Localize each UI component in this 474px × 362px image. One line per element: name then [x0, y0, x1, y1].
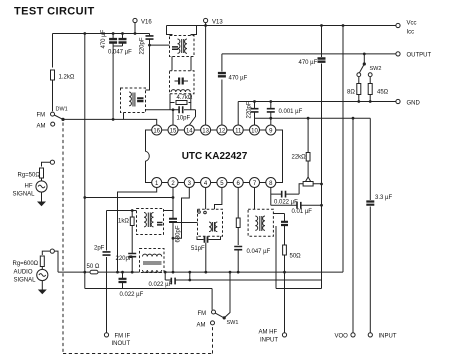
junction rail x84 top [83, 32, 86, 35]
svg-text:0.022 µF: 0.022 µF [149, 282, 173, 288]
wire Vcc/V13 top wire [167, 25, 398, 27]
T5 secondary coil [151, 213, 153, 227]
svg-text:Rg=600Ω: Rg=600Ω [13, 261, 39, 267]
svg-text:INOUT: INOUT [112, 341, 131, 347]
T1 primary coil [178, 39, 180, 53]
svg-text:1.2kΩ: 1.2kΩ [59, 75, 75, 81]
resistor 8 Ohm [347, 77, 361, 102]
ground HF [37, 202, 46, 207]
ground AUDIO [38, 290, 47, 295]
capacitor 220pF lower [116, 254, 137, 274]
wire pin 15 stub [172, 110, 174, 125]
wire AUDIO terminal feed to bus1 [55, 251, 58, 272]
wire [84, 272, 86, 288]
svg-text:12: 12 [219, 128, 226, 134]
svg-text:0.022 µF: 0.022 µF [274, 200, 298, 206]
wire [175, 80, 189, 82]
node junction [188, 279, 191, 282]
svg-text:22kΩ: 22kΩ [292, 155, 307, 161]
wire T4 right side drop [275, 226, 277, 289]
T3 winding marks [198, 211, 201, 214]
capacitor 470uF rail x321 [299, 59, 326, 67]
node junction [269, 100, 272, 103]
terminal GND [396, 99, 421, 106]
capacitor inside T7 [137, 98, 143, 101]
resistor 22kOhm [292, 117, 311, 177]
terminal VOO [335, 333, 356, 340]
wire left rail x52 [52, 34, 54, 68]
node junction [148, 44, 151, 47]
svg-text:220pF: 220pF [140, 37, 146, 54]
resistor 4.7kOhm [170, 94, 193, 105]
capacitor 0.01uF [271, 202, 323, 215]
transformer T3 (AM IF) dashed box [198, 209, 223, 236]
switch SW1 [197, 271, 239, 329]
source AUDIO SIGNAL [14, 267, 48, 290]
capacitor inside T2 [179, 78, 183, 85]
wire rail to FM contact [52, 80, 54, 111]
transformer T4 (AM OSC) dashed box [248, 209, 273, 236]
IC pin 16 [152, 125, 162, 135]
svg-text:INPUT: INPUT [260, 338, 278, 344]
wire pin7 stub into T4 [254, 188, 256, 210]
wire T3 bottom loop [197, 236, 221, 239]
wire bus3 with 0.022uF [164, 272, 166, 280]
IC pin 14 [184, 125, 194, 135]
capacitor 10pF [177, 106, 191, 121]
transformer T2 (FM OSC) dashed box [170, 71, 195, 94]
svg-text:FM: FM [198, 311, 207, 317]
svg-text:Rg=50Ω: Rg=50Ω [18, 173, 41, 179]
IC pin 12 [217, 125, 227, 135]
svg-text:VOO: VOO [335, 334, 349, 340]
svg-text:11: 11 [235, 128, 242, 134]
wire 10pF horizontal [146, 109, 196, 111]
wire pin9 stub [270, 118, 272, 125]
resistor 50 Ohm vertical [283, 245, 302, 333]
svg-text:0.047 µF: 0.047 µF [247, 249, 271, 255]
terminal Vcc/Icc [396, 21, 417, 36]
resistor 45 Ohm [368, 77, 388, 102]
wire OUTPUT from pin12 rail corner [222, 53, 396, 55]
T5 core [148, 213, 150, 228]
capacitor inside T1 [172, 47, 178, 49]
svg-text:15: 15 [170, 128, 177, 134]
node junction [253, 100, 256, 103]
svg-text:220pF: 220pF [116, 256, 133, 262]
wire INPUT rail with 3.3uF [369, 118, 371, 332]
wire T1 top stubs to Vcc wire [167, 26, 197, 36]
node junction [357, 100, 360, 103]
capacitor 470uF pin12 rail [218, 73, 248, 81]
wire V13 stub + pin13 rail [205, 23, 207, 125]
wire B horizontal pin10 to input drop [255, 117, 371, 119]
svg-text:14: 14 [186, 128, 193, 134]
svg-text:2pF: 2pF [94, 246, 105, 252]
IC pin 10 [250, 125, 260, 135]
T3 secondary coil [215, 222, 217, 232]
wire pin5 stub into T3 [215, 188, 222, 210]
svg-text:1kΩ: 1kΩ [118, 219, 129, 225]
IC pin 6 [233, 178, 243, 188]
wire T2 sides to 10pF wire [170, 103, 191, 110]
capacitor 0.047uF top-left [108, 34, 132, 56]
wire pin4 into T3 [205, 188, 207, 210]
svg-text:INPUT: INPUT [379, 334, 397, 340]
node junction [112, 118, 115, 121]
svg-text:FM: FM [37, 113, 46, 119]
node junction [320, 24, 323, 27]
switch DW1 [37, 107, 68, 130]
svg-text:470 µF: 470 µF [229, 76, 248, 82]
IC pin 1 [152, 178, 162, 188]
wire VOO stub [352, 118, 354, 332]
IC pin 13 [201, 125, 211, 135]
resistor 50 Ohm inline bus1 [87, 264, 100, 274]
node caps on top wire [112, 32, 115, 35]
svg-text:470 µF: 470 µF [299, 60, 318, 66]
wire bus1 [58, 271, 343, 273]
wire B pin10 rail [254, 118, 256, 125]
wire pin3 stub [173, 188, 189, 239]
svg-text:51pF: 51pF [191, 246, 205, 252]
wire [172, 188, 174, 198]
node junction [83, 196, 86, 199]
svg-text:Icc: Icc [407, 30, 415, 36]
terminal INPUT [368, 333, 397, 340]
T2 coil horizontal [171, 90, 190, 92]
terminal AM HF INPUT [259, 330, 287, 344]
capacitor 0.001uF pin9 [267, 102, 303, 119]
node junction [172, 108, 175, 111]
svg-text:GND: GND [407, 101, 421, 107]
wire V16 stub [134, 23, 136, 34]
wire [165, 280, 321, 289]
IC U1 UTC KA22427 body [146, 130, 283, 183]
svg-text:0.01 µF: 0.01 µF [292, 209, 313, 215]
rail x342 from Vcc wire down to bus1 [342, 26, 344, 273]
node junction [369, 100, 372, 103]
capacitor 0.022uF pin8 [271, 191, 299, 206]
capacitor right of T4 [273, 214, 288, 246]
IC pin 5 [217, 178, 227, 188]
svg-text:V13: V13 [212, 20, 223, 26]
svg-text:470 µF: 470 µF [101, 29, 107, 48]
T3 core [212, 222, 214, 232]
node junction [172, 196, 175, 199]
capacitor 680pF pin2 line [169, 214, 181, 274]
IC pin 3 [184, 178, 194, 188]
wire 220pF line down to T7 [146, 45, 150, 90]
source HF SIGNAL [13, 178, 48, 202]
wire 680pF junction to T3 left [173, 222, 198, 224]
wire T7 right to 10pF wire [144, 109, 146, 111]
rail x321 from Vcc wire down through 470uF [321, 26, 323, 281]
svg-text:8Ω: 8Ω [347, 90, 355, 96]
node junction [269, 117, 272, 120]
svg-text:DW1: DW1 [56, 107, 68, 113]
T1 secondary coil [185, 39, 187, 53]
svg-text:AUDIO: AUDIO [14, 270, 33, 276]
svg-text:220pF: 220pF [247, 101, 253, 118]
wire stub bus1-bus3 x189 [189, 272, 191, 280]
capacitor 0.022uF series bus3 [149, 278, 176, 288]
dashed switch linkage DW1-SW1 [63, 123, 213, 354]
wire pin1 path [118, 188, 157, 273]
capacitor inside T5 [157, 223, 163, 225]
wire rail x84 [84, 34, 86, 273]
capacitor 220pF pins10 [247, 101, 259, 118]
capacitor 0.022uF bus1-bus2 [119, 271, 144, 298]
IC pin 7 [250, 178, 260, 188]
svg-text:10pF: 10pF [177, 115, 191, 121]
capacitor 470uF top-left [101, 29, 117, 48]
svg-text:V16: V16 [141, 20, 152, 26]
svg-text:AM: AM [37, 124, 46, 130]
svg-text:SIGNAL: SIGNAL [13, 192, 36, 198]
node junction [116, 271, 119, 274]
node junction V16 on top wire [134, 32, 137, 35]
node junction [164, 271, 167, 274]
svg-text:10: 10 [251, 128, 258, 134]
transformer T5 (FM det) dashed box [137, 209, 164, 235]
wire jog y288 right [276, 288, 322, 290]
T7 core [133, 93, 135, 107]
capacitor 3.3uF [366, 195, 392, 205]
svg-text:OUTPUT: OUTPUT [407, 53, 432, 59]
wire T1 bottom stub down [172, 57, 191, 71]
IC pin 11 [233, 125, 243, 135]
T3 primary coil [209, 222, 211, 232]
T1 core [182, 39, 184, 53]
svg-text:FM IF: FM IF [115, 334, 131, 340]
node junction [352, 117, 355, 120]
IC pin 9 [266, 125, 276, 135]
T5 primary coil [144, 213, 146, 227]
wire top-left horizontal [53, 33, 150, 35]
wire GND from pin11 rail corner [238, 101, 395, 103]
T4 secondary coil [263, 216, 265, 230]
svg-text:0.001 µF: 0.001 µF [279, 109, 303, 115]
transformer T1 (FM RF) dashed box [170, 36, 195, 57]
wire y210 into T5 [107, 210, 137, 212]
wire pin2 wire y197 [85, 198, 173, 214]
transformer T7 (FM front-end) dashed box [121, 88, 146, 113]
IC pin 2 [168, 178, 178, 188]
IC pin 15 [168, 125, 178, 135]
node junction [188, 271, 191, 274]
node junction [121, 32, 124, 35]
resistor 1.2kOhm [51, 70, 75, 81]
wire T7 bottom stub [123, 113, 125, 120]
svg-text:UTC KA22427: UTC KA22427 [182, 151, 248, 162]
svg-text:13: 13 [202, 128, 209, 134]
wire DW1 to pin16 [63, 119, 157, 125]
svg-text:SIGNAL: SIGNAL [14, 278, 37, 284]
node junction [342, 24, 345, 27]
wire to pin 14 [189, 110, 195, 125]
potentiometer [299, 177, 323, 194]
resistor Rg=600 Ohm [13, 256, 45, 267]
resistor pin6 line [236, 188, 240, 246]
T4 core [260, 216, 262, 231]
IC pin 8 [266, 178, 276, 188]
capacitor 51pF [191, 236, 208, 273]
terminal AUDIO generator [42, 249, 54, 255]
T6 coil primary [143, 254, 162, 256]
node junction [204, 24, 207, 27]
svg-text:HF: HF [25, 184, 33, 190]
svg-text:16: 16 [153, 128, 160, 134]
svg-text:Vcc: Vcc [407, 21, 417, 27]
IC pin 4 [201, 178, 211, 188]
terminal HF generator [42, 160, 55, 166]
wire pin8 drop [270, 188, 272, 206]
wire 220pF to IFT1 [150, 44, 170, 46]
T7 coil [129, 92, 131, 106]
wire y210 T5 to 1k [132, 210, 173, 212]
transformer T6 (FM IF) dashed box [140, 249, 165, 273]
svg-text:0.022 µF: 0.022 µF [120, 292, 144, 298]
T4 primary coil [255, 216, 257, 230]
svg-text:AM: AM [197, 323, 206, 329]
T6 core [143, 262, 162, 264]
terminal FM IF INOUT [104, 333, 130, 347]
svg-text:50Ω: 50Ω [290, 254, 302, 260]
svg-text:AM HF: AM HF [259, 330, 278, 336]
test point V13 [204, 18, 224, 25]
svg-text:3.3 µF: 3.3 µF [375, 195, 392, 201]
svg-text:50 Ω: 50 Ω [87, 264, 100, 270]
node junction [83, 271, 86, 274]
capacitor 220pF top [140, 34, 154, 55]
wire FM IF line with 2pF [106, 211, 108, 333]
resistor Rg=50 Ohm [18, 168, 44, 179]
switch SW2 [357, 53, 382, 77]
test point V16 [133, 18, 152, 25]
svg-text:SW2: SW2 [370, 66, 382, 72]
resistor 1kOhm [118, 209, 134, 253]
wire pin12 rail [221, 54, 223, 125]
svg-text:680pF: 680pF [175, 225, 181, 242]
svg-text:SW1: SW1 [227, 320, 239, 326]
svg-text:0.047 µF: 0.047 µF [108, 50, 132, 56]
wire pin11 rail [237, 102, 239, 126]
wire caps bottoms joined, drop to DW1 wire [113, 46, 122, 119]
T6 coil secondary [143, 270, 162, 272]
wire bus2 [85, 288, 212, 290]
capacitor 0.047uF pin6 line [234, 247, 270, 274]
capacitor 2pF [94, 246, 111, 256]
terminal OUTPUT [396, 52, 432, 59]
svg-text:TEST CIRCUIT: TEST CIRCUIT [14, 6, 95, 18]
svg-text:45Ω: 45Ω [377, 90, 389, 96]
